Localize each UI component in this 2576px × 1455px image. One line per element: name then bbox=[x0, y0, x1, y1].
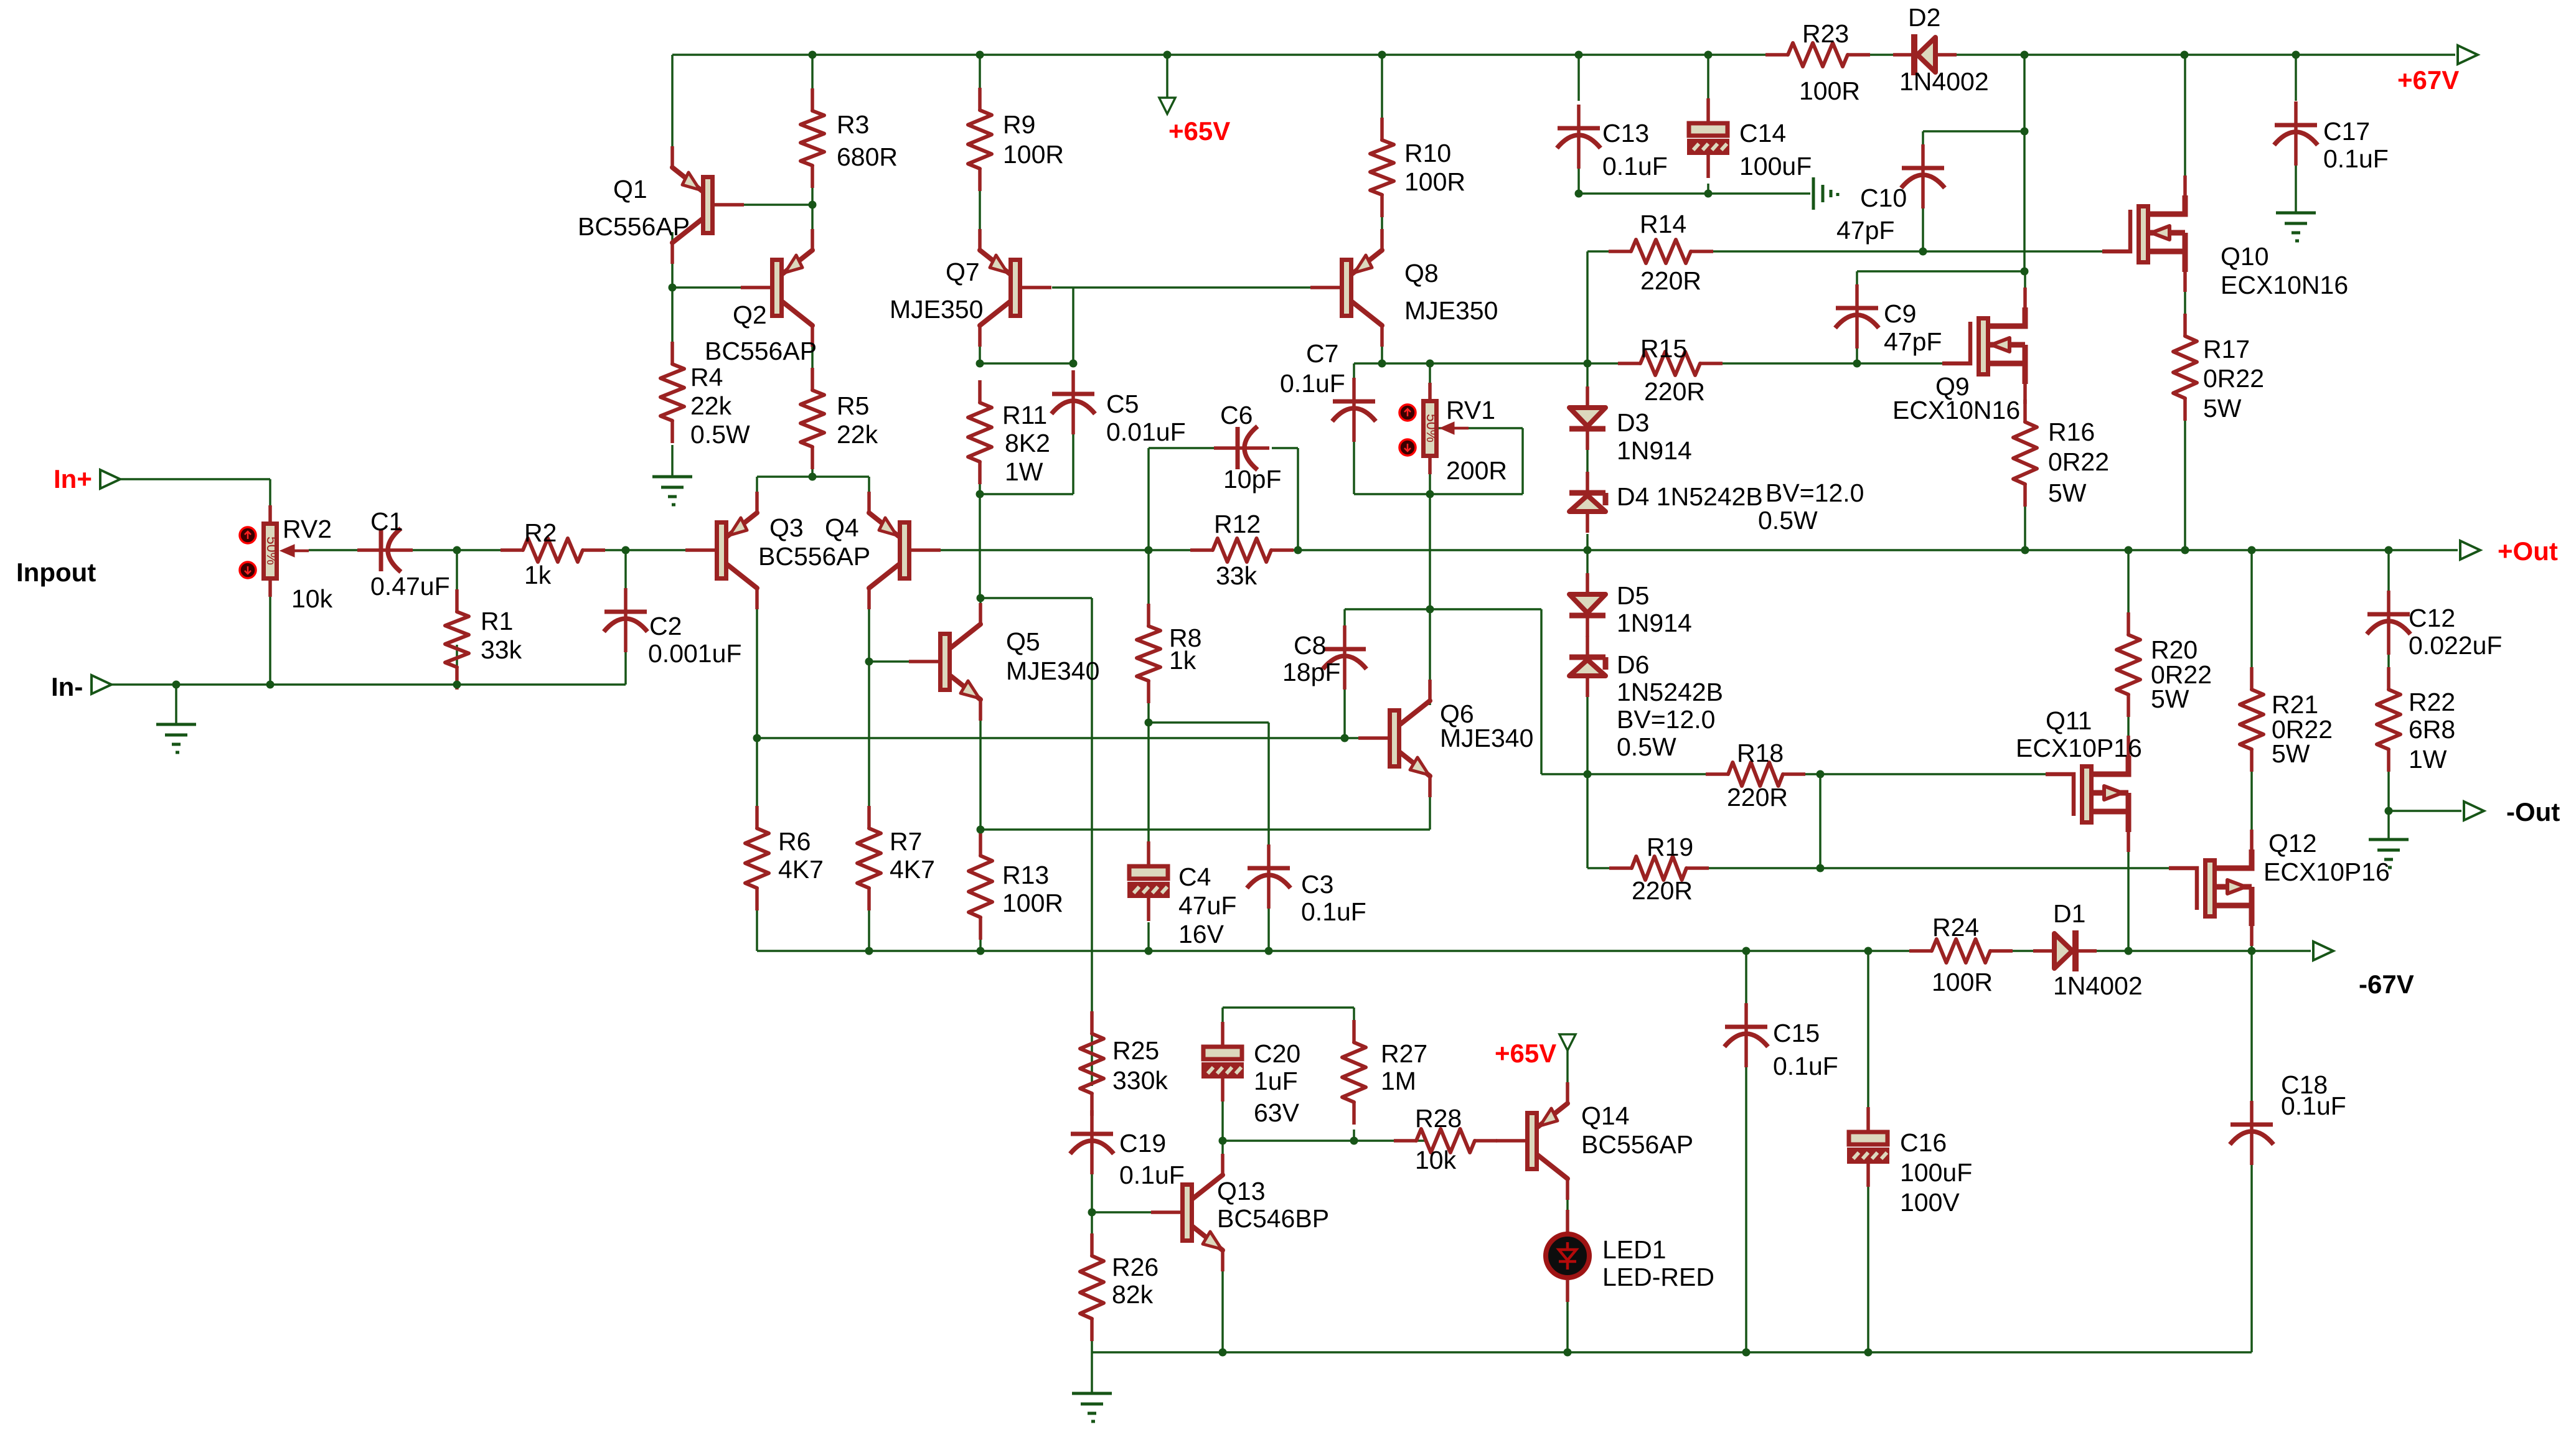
svg-text:0.1uF: 0.1uF bbox=[1280, 369, 1345, 398]
junction bbox=[865, 658, 873, 666]
junction bbox=[2385, 546, 2393, 554]
junction bbox=[2021, 128, 2029, 136]
wire bbox=[671, 288, 674, 364]
wire bbox=[1147, 723, 1150, 865]
junction bbox=[2181, 51, 2189, 59]
svg-text:200R: 200R bbox=[1446, 456, 1507, 485]
ground GND-Q13 bbox=[1072, 1393, 1112, 1421]
ground GND-OUT bbox=[2369, 840, 2409, 868]
capacitor C10 bbox=[1901, 144, 1945, 208]
ground GND-R4 bbox=[652, 477, 692, 505]
junction bbox=[1864, 947, 1873, 955]
wire bbox=[1922, 131, 1924, 166]
wire bbox=[120, 478, 270, 480]
transistor Q8 bbox=[1310, 229, 1382, 347]
junction bbox=[1584, 546, 1592, 554]
capacitor C5 bbox=[1051, 370, 1095, 434]
svg-text:C15: C15 bbox=[1773, 1019, 1820, 1047]
wire bbox=[405, 549, 523, 551]
resistor R11 bbox=[968, 380, 992, 484]
svg-text:1W: 1W bbox=[1005, 457, 1043, 486]
junction bbox=[2021, 51, 2029, 59]
terminal In- bbox=[92, 675, 111, 694]
terminal +67V bbox=[2458, 45, 2478, 64]
junction bbox=[865, 947, 873, 955]
svg-text:RV1: RV1 bbox=[1446, 396, 1495, 424]
resistor R19 bbox=[1609, 856, 1709, 880]
wire bbox=[1439, 427, 1523, 429]
wire bbox=[671, 232, 674, 288]
svg-text:Q1: Q1 bbox=[613, 175, 647, 204]
wire bbox=[2024, 384, 2026, 422]
junction bbox=[1742, 947, 1751, 955]
wire bbox=[1707, 184, 1709, 194]
wire bbox=[1052, 286, 1310, 289]
svg-text:1k: 1k bbox=[1169, 646, 1196, 675]
capacitor C8 bbox=[1323, 625, 1366, 690]
wire bbox=[979, 917, 982, 951]
wire bbox=[2184, 272, 2186, 336]
capacitor C20 (electrolytic) bbox=[1203, 1022, 1242, 1102]
wire bbox=[1700, 362, 1857, 365]
junction bbox=[1817, 770, 1825, 779]
wire bbox=[2024, 484, 2026, 550]
wire bbox=[811, 447, 814, 477]
wire bbox=[868, 477, 870, 513]
junction bbox=[1163, 51, 1172, 59]
wire bbox=[671, 55, 674, 168]
svg-text:100R: 100R bbox=[1003, 140, 1064, 169]
transistor Q13 bbox=[1151, 1154, 1223, 1271]
wire bbox=[868, 662, 870, 828]
svg-text:100R: 100R bbox=[1932, 968, 1993, 996]
svg-text:6R8: 6R8 bbox=[2409, 715, 2455, 744]
svg-text:R22: R22 bbox=[2409, 688, 2455, 716]
terminal In+ bbox=[100, 470, 120, 489]
svg-text:10k: 10k bbox=[291, 584, 333, 613]
svg-text:C1: C1 bbox=[370, 507, 403, 536]
resistor R8 bbox=[1137, 604, 1160, 703]
junction bbox=[753, 734, 761, 742]
terminal -67V bbox=[2313, 942, 2333, 960]
wire bbox=[2250, 1158, 2253, 1352]
resistor R26 bbox=[1080, 1233, 1104, 1341]
wire bbox=[2387, 810, 2390, 812]
svg-text:5W: 5W bbox=[2203, 394, 2242, 423]
resistor R24 bbox=[1909, 939, 2013, 963]
wire bbox=[1267, 898, 1270, 951]
wire bbox=[980, 493, 1073, 495]
wire bbox=[2387, 811, 2390, 840]
svg-text:47pF: 47pF bbox=[1884, 327, 1942, 356]
svg-text:0.1uF: 0.1uF bbox=[1301, 897, 1366, 926]
transistor Q9 (MOSFET) bbox=[1942, 288, 2025, 404]
junction bbox=[977, 826, 985, 834]
wire bbox=[1221, 1141, 1224, 1159]
svg-text:BC546BP: BC546BP bbox=[1217, 1204, 1329, 1233]
wire bbox=[1566, 1050, 1569, 1086]
wire bbox=[175, 685, 177, 724]
wire bbox=[583, 549, 716, 551]
wire bbox=[1691, 250, 2104, 253]
svg-text:C6: C6 bbox=[1220, 401, 1253, 429]
svg-text:In+: In+ bbox=[54, 464, 92, 494]
wire bbox=[1381, 330, 1383, 363]
junction bbox=[1426, 606, 1434, 614]
wire bbox=[1221, 1093, 1224, 1141]
transistor Q1 bbox=[672, 146, 744, 264]
svg-text:R10: R10 bbox=[1404, 139, 1451, 167]
svg-text:D3: D3 bbox=[1617, 408, 1649, 437]
resistor R18 bbox=[1706, 762, 1805, 786]
svg-text:R3: R3 bbox=[837, 110, 869, 139]
wire bbox=[2387, 644, 2390, 690]
wire bbox=[1541, 773, 1587, 775]
junction bbox=[1575, 190, 1583, 198]
svg-text:Q13: Q13 bbox=[1217, 1177, 1266, 1205]
wire bbox=[1091, 1212, 1093, 1256]
wire bbox=[1092, 1211, 1158, 1214]
svg-text:R27: R27 bbox=[1381, 1039, 1427, 1068]
wire bbox=[1223, 1006, 1354, 1009]
wire bbox=[1429, 609, 1431, 705]
svg-text:Inpout: Inpout bbox=[16, 558, 96, 587]
svg-text:0.5W: 0.5W bbox=[690, 420, 750, 449]
junction bbox=[1864, 1349, 1873, 1357]
svg-text:BV=12.0: BV=12.0 bbox=[1765, 479, 1864, 507]
svg-text:R26: R26 bbox=[1112, 1253, 1159, 1281]
svg-text:C8: C8 bbox=[1294, 631, 1326, 660]
wire bbox=[1586, 550, 1589, 594]
svg-text:Q5: Q5 bbox=[1006, 627, 1040, 656]
svg-text:50%: 50% bbox=[264, 536, 280, 565]
transistor Q3 bbox=[685, 492, 757, 609]
wire bbox=[1271, 549, 2458, 551]
wire bbox=[1072, 433, 1074, 494]
svg-text:Q7: Q7 bbox=[946, 258, 980, 286]
junction bbox=[2292, 51, 2300, 59]
svg-text:1k: 1k bbox=[524, 561, 552, 589]
svg-text:+65V: +65V bbox=[1495, 1039, 1556, 1068]
wire bbox=[757, 950, 1932, 952]
svg-text:+67V: +67V bbox=[2397, 65, 2459, 95]
wire bbox=[456, 645, 458, 685]
junction bbox=[1294, 546, 1302, 554]
wire bbox=[1343, 609, 1346, 649]
wire bbox=[1345, 608, 1541, 611]
capacitor C14 (electrolytic) bbox=[1689, 98, 1728, 178]
svg-text:BC556AP: BC556AP bbox=[705, 337, 817, 365]
resistor R14 bbox=[1609, 240, 1713, 263]
wire bbox=[1353, 363, 1355, 401]
svg-text:0.5W: 0.5W bbox=[1617, 732, 1676, 761]
resistor R15 bbox=[1618, 352, 1723, 375]
svg-text:BC556AP: BC556AP bbox=[1581, 1130, 1693, 1159]
svg-text:220R: 220R bbox=[1644, 377, 1705, 406]
svg-text:18pF: 18pF bbox=[1282, 658, 1340, 686]
wire bbox=[1586, 429, 1589, 475]
resistor R9 bbox=[968, 88, 992, 191]
wire bbox=[756, 738, 758, 828]
junction bbox=[1853, 360, 1861, 368]
wire bbox=[1586, 697, 1589, 774]
wire bbox=[979, 462, 981, 494]
svg-text:0.5W: 0.5W bbox=[1758, 506, 1818, 535]
junction bbox=[809, 51, 817, 59]
wire bbox=[1149, 447, 1228, 449]
transistor Q5 bbox=[909, 603, 980, 721]
junction bbox=[2248, 546, 2256, 554]
svg-text:R5: R5 bbox=[837, 391, 869, 420]
svg-text:1N4002: 1N4002 bbox=[2053, 971, 2143, 1000]
resistor R17 bbox=[2173, 314, 2197, 421]
wire bbox=[1091, 598, 1093, 1086]
svg-text:R6: R6 bbox=[778, 827, 811, 856]
resistor R7 bbox=[857, 806, 881, 910]
wire bbox=[2389, 810, 2461, 812]
svg-text:33k: 33k bbox=[1216, 561, 1257, 590]
ground GND-C17 bbox=[2276, 213, 2316, 241]
junction bbox=[669, 284, 677, 292]
wire bbox=[757, 475, 869, 478]
wire bbox=[1577, 154, 1580, 194]
svg-text:100uF: 100uF bbox=[1739, 152, 1812, 180]
wire bbox=[1805, 773, 1820, 775]
svg-text:In-: In- bbox=[51, 672, 83, 701]
wire bbox=[2387, 749, 2390, 811]
wire bbox=[756, 592, 758, 738]
wire bbox=[1353, 429, 1355, 494]
svg-text:100uF: 100uF bbox=[1900, 1158, 1972, 1187]
potentiometer RV1 bbox=[1399, 383, 1469, 474]
junction bbox=[1378, 51, 1386, 59]
wire bbox=[309, 549, 377, 551]
svg-text:100V: 100V bbox=[1900, 1188, 1960, 1217]
capacitor C19 bbox=[1070, 1110, 1114, 1174]
junction bbox=[2021, 268, 2029, 276]
svg-text:1N4002: 1N4002 bbox=[1899, 67, 1989, 96]
transistor Q2 bbox=[741, 229, 812, 347]
svg-text:D2: D2 bbox=[1908, 3, 1940, 32]
svg-text:330k: 330k bbox=[1112, 1066, 1168, 1095]
svg-text:Q12: Q12 bbox=[2268, 829, 2317, 858]
svg-text:Q2: Q2 bbox=[733, 301, 767, 329]
junction bbox=[1378, 360, 1386, 368]
ground GND-IN bbox=[156, 724, 196, 752]
zener diode D6 bbox=[1569, 636, 1605, 697]
resistor R3 bbox=[801, 88, 824, 188]
wire bbox=[1566, 1301, 1569, 1352]
wire bbox=[1990, 950, 2303, 952]
svg-text:+65V: +65V bbox=[1168, 116, 1230, 146]
svg-text:47pF: 47pF bbox=[1836, 216, 1894, 245]
capacitor C13 bbox=[1557, 105, 1601, 169]
svg-text:C19: C19 bbox=[1119, 1129, 1166, 1158]
junction bbox=[1584, 360, 1592, 368]
wire bbox=[979, 598, 982, 625]
wire bbox=[1867, 1183, 1869, 1352]
wire bbox=[1707, 55, 1709, 123]
resistor R6 bbox=[745, 806, 769, 910]
resistor R28 bbox=[1394, 1129, 1497, 1153]
junction bbox=[1704, 190, 1713, 198]
wire bbox=[1221, 1008, 1224, 1034]
svg-text:R13: R13 bbox=[1002, 861, 1049, 889]
svg-text:R25: R25 bbox=[1112, 1036, 1159, 1065]
wire bbox=[269, 596, 271, 685]
wire bbox=[979, 830, 982, 856]
junction bbox=[1426, 360, 1434, 368]
svg-text:16V: 16V bbox=[1178, 920, 1225, 948]
wire bbox=[2250, 550, 2253, 690]
svg-text:220R: 220R bbox=[1632, 876, 1693, 905]
svg-text:ECX10N16: ECX10N16 bbox=[2221, 271, 2348, 299]
wire bbox=[2184, 398, 2186, 550]
wire bbox=[1857, 270, 2024, 273]
resistor R23 bbox=[1765, 43, 1870, 67]
svg-text:R17: R17 bbox=[2203, 335, 2250, 363]
svg-text:0.001uF: 0.001uF bbox=[648, 639, 741, 668]
wire bbox=[979, 330, 981, 363]
svg-text:22k: 22k bbox=[690, 391, 732, 420]
svg-text:R19: R19 bbox=[1647, 833, 1693, 861]
wire bbox=[1922, 188, 1924, 251]
resistor R25 bbox=[1080, 1011, 1104, 1116]
resistor R12 bbox=[1190, 538, 1294, 562]
junction bbox=[1341, 734, 1349, 742]
svg-text:R23: R23 bbox=[1802, 19, 1849, 48]
junction bbox=[1817, 864, 1825, 873]
wire bbox=[1343, 688, 1346, 738]
wire bbox=[1745, 951, 1747, 1016]
junction bbox=[1704, 51, 1713, 59]
wire bbox=[1297, 448, 1299, 550]
svg-text:C10: C10 bbox=[1860, 184, 1907, 212]
transistor Q14 bbox=[1496, 1082, 1568, 1200]
svg-text:R28: R28 bbox=[1415, 1104, 1462, 1133]
junction bbox=[1350, 1137, 1358, 1145]
wire bbox=[868, 888, 870, 951]
wire bbox=[1540, 609, 1543, 774]
svg-text:R14: R14 bbox=[1640, 210, 1686, 238]
capacitor C18 bbox=[2230, 1101, 2273, 1165]
svg-text:R1: R1 bbox=[481, 607, 513, 635]
wire bbox=[1521, 428, 1524, 494]
capacitor C9 bbox=[1835, 284, 1879, 349]
capacitor C1 bbox=[357, 528, 413, 572]
resistor R1 bbox=[445, 589, 469, 690]
capacitor C3 bbox=[1247, 844, 1290, 909]
svg-text:100R: 100R bbox=[1799, 77, 1860, 105]
wire bbox=[2250, 951, 2253, 1117]
wire bbox=[1166, 55, 1168, 98]
wire bbox=[1221, 1266, 1224, 1352]
wire bbox=[980, 828, 1430, 831]
wire bbox=[1354, 362, 1640, 365]
capacitor C4 (electrolytic) bbox=[1129, 841, 1168, 921]
wire bbox=[1381, 195, 1383, 253]
svg-text:D4 1N5242B: D4 1N5242B bbox=[1617, 482, 1763, 511]
svg-text:C14: C14 bbox=[1739, 119, 1786, 147]
junction bbox=[1742, 1349, 1751, 1357]
svg-text:C4: C4 bbox=[1178, 863, 1211, 891]
wire bbox=[911, 549, 1213, 551]
wire bbox=[980, 597, 1092, 599]
capacitor C17 bbox=[2274, 101, 2318, 166]
wire bbox=[979, 169, 981, 253]
resistor R16 bbox=[2013, 400, 2037, 507]
wire bbox=[1429, 458, 1431, 494]
svg-text:-67V: -67V bbox=[2359, 970, 2414, 999]
svg-text:0R22: 0R22 bbox=[2048, 447, 2109, 476]
wire bbox=[1272, 447, 1298, 449]
wire bbox=[269, 479, 271, 505]
wire bbox=[2127, 550, 2130, 635]
diode D2 bbox=[1893, 34, 1957, 75]
junction bbox=[1145, 546, 1153, 554]
wire bbox=[1381, 55, 1383, 140]
junction bbox=[2021, 546, 2029, 554]
svg-text:220R: 220R bbox=[1727, 783, 1788, 812]
wire bbox=[1586, 251, 1589, 363]
svg-text:BC556AP: BC556AP bbox=[578, 212, 690, 241]
wire bbox=[1429, 494, 1431, 609]
svg-text:220R: 220R bbox=[1640, 266, 1701, 295]
junction bbox=[809, 201, 817, 209]
svg-text:0.1uF: 0.1uF bbox=[2323, 144, 2389, 173]
svg-text:R4: R4 bbox=[690, 363, 723, 391]
junction bbox=[977, 594, 985, 602]
wire bbox=[111, 683, 626, 686]
transistor Q4 bbox=[869, 492, 941, 609]
wire bbox=[1147, 448, 1150, 550]
junction bbox=[2125, 947, 2133, 955]
wire bbox=[1820, 773, 2060, 775]
svg-text:C17: C17 bbox=[2323, 117, 2370, 146]
svg-text:R7: R7 bbox=[890, 827, 922, 856]
wire bbox=[1267, 723, 1270, 868]
junction bbox=[1219, 1349, 1227, 1357]
svg-text:R2: R2 bbox=[524, 518, 557, 547]
svg-text:C2: C2 bbox=[649, 612, 682, 640]
svg-text:C16: C16 bbox=[1900, 1128, 1947, 1157]
svg-text:C9: C9 bbox=[1884, 299, 1916, 328]
svg-text:Q4: Q4 bbox=[825, 513, 859, 542]
wire bbox=[671, 445, 674, 477]
resistor R27 bbox=[1342, 1020, 1366, 1125]
wire bbox=[1147, 922, 1150, 951]
wire bbox=[2387, 550, 2390, 591]
svg-text:22k: 22k bbox=[837, 420, 878, 449]
wire bbox=[1587, 773, 1728, 775]
wire bbox=[624, 639, 627, 685]
junction bbox=[453, 681, 461, 689]
wire bbox=[1586, 363, 1589, 408]
wire bbox=[2127, 695, 2130, 775]
wire bbox=[741, 204, 812, 206]
junction bbox=[2181, 546, 2189, 554]
svg-text:ECX10P16: ECX10P16 bbox=[2263, 858, 2390, 886]
wire bbox=[1709, 867, 1820, 869]
junction bbox=[1088, 1209, 1096, 1217]
wire bbox=[1577, 55, 1580, 101]
wire bbox=[2024, 271, 2026, 312]
wire bbox=[456, 550, 458, 589]
wire bbox=[1579, 192, 1810, 195]
junction bbox=[1145, 719, 1153, 727]
wire bbox=[869, 660, 910, 663]
resistor R10 bbox=[1370, 118, 1394, 217]
